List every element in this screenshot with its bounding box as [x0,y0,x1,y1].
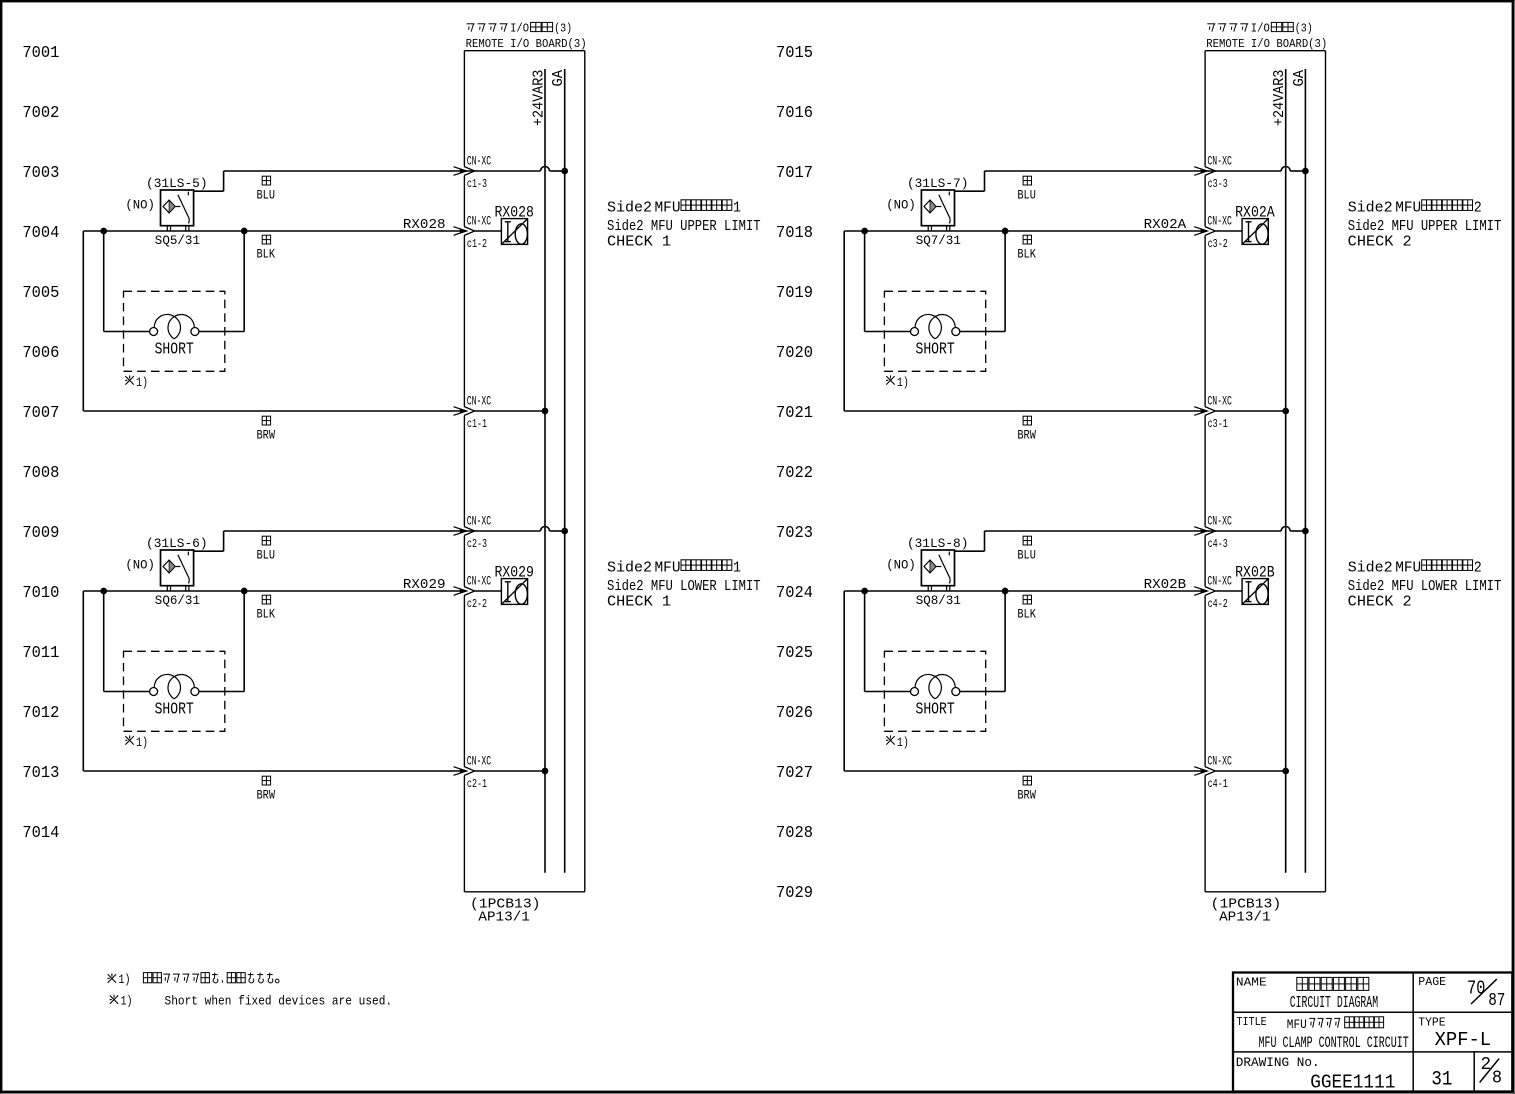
svg-text:CHECK 2: CHECK 2 [1348,233,1412,251]
SHORT jumper plug symbol (SQ6/31) [150,674,199,698]
wire from junction dots down to SHORT jumper (SQ7/31) [865,231,1006,332]
svg-text:7004: 7004 [22,223,59,242]
switch contact blade in SQ8/31 [937,552,951,584]
junction dot c3-3 on GA bus [1303,168,1309,174]
svg-text:MFU: MFU [655,558,681,576]
connector label CN-XC c3-2 [1207,215,1232,251]
svg-text:RX029: RX029 [494,564,534,582]
svg-text:GGEE1111: GGEE1111 [1310,1071,1395,1093]
svg-text:c2-3: c2-3 [467,537,487,551]
I/O module label RX029 [494,564,534,582]
svg-text:1): 1) [136,736,148,750]
board designation (1PCB13) right [1211,897,1282,926]
connector label CN-XC c4-2 [1207,575,1232,611]
note mark *1) below dashed box [886,375,909,390]
SHORT dashed enclosure (SQ8/31) [884,651,985,731]
svg-text:SHORT: SHORT [916,340,955,358]
note mark *1) below dashed box [125,375,148,390]
svg-text:7009: 7009 [22,523,59,542]
switch name label (31LS-8) [907,536,969,551]
svg-text:BRW: BRW [257,429,276,443]
row number labels 7001-7014 [22,43,59,842]
junction dot left on wire c4-2 [862,588,868,594]
svg-text:CN-XC: CN-XC [1207,215,1232,229]
remote I/O board right outline [1205,51,1325,892]
wire c4-1 BRW return to +24VAR3 [844,591,1285,776]
svg-text:AP13/1: AP13/1 [1219,910,1271,926]
connector entry arrow at y=231 [1194,227,1215,236]
svg-text:RX029: RX029 [403,578,446,593]
svg-text:BRW: BRW [257,789,276,803]
limit switch SQ8/31 (31LS-8) box [921,550,954,591]
svg-text:7007: 7007 [22,403,59,422]
svg-text:NAME: NAME [1236,976,1267,990]
svg-text:2: 2 [1481,1055,1492,1075]
+24VAR3 bus right [1272,69,1288,873]
blue wire colour label [257,176,276,203]
proximity sensor diamond in SQ7/31 [924,200,936,213]
SHORT label [155,700,194,718]
function description Side2 MFU UPPER LIMIT [607,198,761,250]
svg-text:c1-3: c1-3 [467,177,487,191]
svg-text:CN-XC: CN-XC [1207,755,1232,769]
svg-text:(3): (3) [554,22,572,36]
connector label CN-XC c1-1 [467,395,492,431]
blue wire colour label [1017,176,1036,203]
svg-text:DRAWING No.: DRAWING No. [1236,1055,1320,1070]
SHORT dashed enclosure (SQ7/31) [884,291,985,371]
junction dot on +24VAR3 bus y=771 [542,768,548,774]
svg-text:CN-XC: CN-XC [1207,155,1232,169]
svg-text:(NO): (NO) [125,198,154,213]
connector entry arrow at y=411 [454,407,475,416]
title block frame [1233,973,1512,1092]
svg-text:87: 87 [1488,991,1505,1011]
svg-text:7006: 7006 [22,343,59,362]
svg-text:+24VAR3: +24VAR3 [1272,70,1288,126]
title block sheet number 31 [1431,1068,1452,1091]
svg-text:7016: 7016 [776,103,813,122]
svg-text:RX02A: RX02A [1144,218,1187,233]
blue wire colour label [257,536,276,563]
svg-text:1): 1) [136,376,148,390]
svg-text:CN-XC: CN-XC [467,215,492,229]
connector entry arrow at y=771 [454,767,475,776]
connector label CN-XC c2-2 [467,575,492,611]
svg-text:BRW: BRW [1017,789,1036,803]
svg-text:CHECK 2: CHECK 2 [1348,593,1412,611]
svg-text:BLU: BLU [257,549,276,563]
svg-text:7020: 7020 [776,343,813,362]
(NO) label for SQ5/31 [125,198,154,213]
connector entry arrow at y=171 [1194,167,1215,176]
wire c1-1 BRW return to +24VAR3 [83,231,545,416]
svg-text:7024: 7024 [776,583,813,602]
svg-text:SHORT: SHORT [916,700,955,718]
title block sheet fraction 2/8 [1480,1055,1502,1088]
svg-text:BLK: BLK [257,607,276,621]
svg-text:7011: 7011 [22,643,59,662]
proximity sensor diamond in SQ8/31 [924,560,936,573]
connector label CN-XC c4-1 [1207,755,1232,791]
svg-text:(31LS-6): (31LS-6) [146,536,208,551]
switch designator SQ5/31 [155,234,200,248]
svg-text:CHECK 1: CHECK 1 [607,593,671,611]
svg-text:31: 31 [1431,1068,1452,1091]
connector entry arrow at y=591 [1194,587,1215,596]
svg-text:REMOTE I/O BOARD(3): REMOTE I/O BOARD(3) [1206,37,1327,51]
I/O module label RX02B [1235,564,1275,582]
svg-text:7026: 7026 [776,703,813,722]
svg-text:c2-2: c2-2 [467,597,487,611]
svg-text:7022: 7022 [776,463,813,482]
svg-text:SQ6/31: SQ6/31 [155,594,200,608]
(NO) label for SQ6/31 [125,558,154,573]
I/O module RX02B [1242,579,1268,605]
junction dot left on wire c3-2 [862,228,868,234]
board title right [1206,22,1327,51]
svg-text:PAGE: PAGE [1418,975,1446,989]
SHORT jumper plug symbol (SQ7/31) [911,314,960,338]
switch contact blade in SQ7/31 [937,192,951,224]
svg-text:BLK: BLK [1017,247,1036,261]
svg-text:c1-2: c1-2 [467,237,487,251]
brown wire colour label [257,776,276,803]
function description Side2 MFU UPPER LIMIT [1348,198,1502,250]
svg-text:MFU: MFU [1287,1017,1307,1032]
proximity sensor diamond in SQ5/31 [163,200,175,213]
svg-text:7013: 7013 [22,763,59,782]
svg-text:TYPE: TYPE [1418,1016,1445,1030]
junction dot right on wire c3-2 [1002,228,1008,234]
wire c2-2 BLK from SQ6/31 to I/O input RX029 [83,587,501,596]
title block TITLE cell [1237,1015,1409,1052]
svg-text:7014: 7014 [22,823,59,842]
switch designator SQ7/31 [916,234,961,248]
switch contact blade in SQ6/31 [176,552,190,584]
note mark *1) below dashed box [886,735,909,750]
board designation (1PCB13) left [470,897,541,926]
svg-text:1): 1) [119,973,131,987]
svg-text:7002: 7002 [22,103,59,122]
SHORT label [916,700,955,718]
switch designator SQ8/31 [916,594,961,608]
connector label CN-XC c1-2 [467,215,492,251]
svg-text:7010: 7010 [22,583,59,602]
note mark *1) below dashed box [125,735,148,750]
svg-text:CN-XC: CN-XC [467,395,492,409]
switch name label (31LS-5) [146,176,208,191]
connector entry arrow at y=531 [454,527,475,536]
svg-text:CN-XC: CN-XC [1207,575,1232,589]
connector entry arrow at y=771 [1194,767,1215,776]
svg-text:7008: 7008 [22,463,59,482]
footnote line 2 (English): *1) Short when fixed devices are used. [110,994,393,1009]
wire from junction dots down to SHORT jumper (SQ8/31) [865,591,1006,692]
svg-text:SHORT: SHORT [155,700,194,718]
svg-text:(31LS-8): (31LS-8) [907,536,969,551]
limit switch SQ7/31 (31LS-7) box [921,190,954,231]
svg-text:Side2: Side2 [607,198,652,216]
I/O module label RX02A [1235,204,1275,222]
svg-text:RX02B: RX02B [1235,564,1275,582]
wire c1-3 BLU from SQ5/31 to board [194,167,565,192]
svg-text:MFU: MFU [1395,558,1421,576]
svg-text:7015: 7015 [776,43,813,62]
svg-text:7028: 7028 [776,823,813,842]
svg-text:BLU: BLU [1017,549,1036,563]
board title left [466,22,587,51]
black wire colour label [1017,235,1036,261]
svg-text:BLU: BLU [1017,189,1036,203]
SHORT jumper plug symbol (SQ5/31) [150,314,199,338]
connector label CN-XC c3-3 [1207,155,1232,191]
svg-text:c3-3: c3-3 [1208,177,1228,191]
svg-text:7019: 7019 [776,283,813,302]
svg-text:MFU CLAMP CONTROL CIRCUIT: MFU CLAMP CONTROL CIRCUIT [1259,1034,1409,1052]
SHORT label [155,340,194,358]
junction dot left on wire c1-2 [101,228,107,234]
svg-text:SQ5/31: SQ5/31 [155,234,200,248]
junction dot right on wire c1-2 [241,228,247,234]
brown wire colour label [257,416,276,443]
GA bus right [1292,69,1308,873]
I/O module RX02A [1242,219,1268,245]
SHORT dashed enclosure (SQ6/31) [124,651,225,731]
function description Side2 MFU LOWER LIMIT [1348,558,1502,610]
svg-text:RX028: RX028 [494,204,534,222]
svg-text:I/O: I/O [1251,22,1270,36]
connector label CN-XC c4-3 [1207,515,1232,551]
svg-text:8: 8 [1492,1069,1502,1089]
SHORT label [916,340,955,358]
svg-text:CIRCUIT DIAGRAM: CIRCUIT DIAGRAM [1290,993,1378,1012]
svg-text:7012: 7012 [22,703,59,722]
svg-text:2: 2 [1474,558,1482,576]
svg-text:1: 1 [733,558,741,576]
svg-text:REMOTE I/O BOARD(3): REMOTE I/O BOARD(3) [466,37,587,51]
svg-text:7021: 7021 [776,403,813,422]
row number labels 7015-7029 [776,43,813,902]
svg-text:(31LS-5): (31LS-5) [146,176,208,191]
brown wire colour label [1017,416,1036,443]
svg-text:c3-2: c3-2 [1208,237,1228,251]
svg-text:7003: 7003 [22,163,59,182]
svg-text:1: 1 [733,198,741,216]
svg-text:(31LS-7): (31LS-7) [907,176,969,191]
svg-text:SHORT: SHORT [155,340,194,358]
connector label CN-XC c2-1 [467,755,492,791]
connector label CN-XC c1-3 [467,155,492,191]
I/O module RX028 [501,219,527,245]
svg-text:7001: 7001 [22,43,59,62]
limit switch SQ6/31 (31LS-6) box [161,550,194,591]
svg-text:CN-XC: CN-XC [467,755,492,769]
wire signal label RX029 [403,578,446,593]
junction dot c2-3 on GA bus [562,528,568,534]
junction dot c1-3 on GA bus [562,168,568,174]
wire c1-2 BLK from SQ5/31 to I/O input RX028 [83,227,501,236]
svg-text:c3-1: c3-1 [1208,417,1228,431]
limit switch SQ5/31 (31LS-5) box [161,190,194,231]
title block NAME cell [1236,976,1378,1012]
function description Side2 MFU LOWER LIMIT [607,558,761,610]
svg-text:c4-2: c4-2 [1208,597,1228,611]
GA bus left [551,69,567,873]
junction dot on +24VAR3 bus y=411 [542,408,548,414]
SHORT jumper plug symbol (SQ8/31) [911,674,960,698]
wire c3-3 BLU from SQ7/31 to board [955,167,1306,192]
svg-text:(3): (3) [1295,22,1313,36]
junction dot right on wire c2-2 [241,588,247,594]
wire from junction dots down to SHORT jumper (SQ6/31) [104,591,245,692]
switch name label (31LS-6) [146,536,208,551]
svg-text:XPF-L: XPF-L [1435,1029,1492,1051]
wire c2-1 BRW return to +24VAR3 [83,591,545,776]
switch designator SQ6/31 [155,594,200,608]
(NO) label for SQ8/31 [886,558,916,573]
svg-text:7027: 7027 [776,763,813,782]
SHORT dashed enclosure (SQ5/31) [124,291,225,371]
svg-text:GA: GA [1292,70,1308,87]
connector entry arrow at y=171 [454,167,475,176]
svg-text:c4-1: c4-1 [1208,777,1228,791]
svg-text:CN-XC: CN-XC [1207,395,1232,409]
svg-text:GA: GA [551,70,567,87]
connector entry arrow at y=531 [1194,527,1215,536]
+24VAR3 bus left [532,69,548,873]
svg-text:1): 1) [121,994,133,1008]
junction dot right on wire c4-2 [1002,588,1008,594]
junction dot c4-3 on GA bus [1303,528,1309,534]
connector label CN-XC c2-3 [467,515,492,551]
junction dot on +24VAR3 bus y=771 [1283,768,1289,774]
svg-text:7023: 7023 [776,523,813,542]
svg-text:CN-XC: CN-XC [467,575,492,589]
wire signal label RX02B [1144,578,1187,593]
junction dot on +24VAR3 bus y=411 [1283,408,1289,414]
svg-text:CN-XC: CN-XC [467,515,492,529]
svg-text:TITLE: TITLE [1237,1015,1267,1029]
svg-text:AP13/1: AP13/1 [478,910,530,926]
wire from junction dots down to SHORT jumper (SQ5/31) [104,231,245,332]
black wire colour label [1017,595,1036,621]
svg-text:MFU: MFU [655,198,681,216]
svg-text:+24VAR3: +24VAR3 [532,70,548,126]
svg-text:1): 1) [897,376,909,390]
svg-text:2: 2 [1474,198,1482,216]
blue wire colour label [1017,536,1036,563]
black wire colour label [257,595,276,621]
connector entry arrow at y=231 [454,227,475,236]
I/O module RX029 [501,579,527,605]
svg-text:c1-1: c1-1 [467,417,487,431]
svg-text:BLK: BLK [257,247,276,261]
svg-text:(NO): (NO) [125,558,154,573]
proximity sensor diamond in SQ6/31 [163,560,175,573]
svg-text:Side2: Side2 [1348,558,1393,576]
svg-text:CN-XC: CN-XC [1207,515,1232,529]
svg-text:c4-3: c4-3 [1208,537,1228,551]
svg-text:7025: 7025 [776,643,813,662]
wire signal label RX028 [403,218,446,233]
wire c4-2 BLK from SQ8/31 to I/O input RX02B [844,587,1242,596]
wire c3-1 BRW return to +24VAR3 [844,231,1285,416]
svg-text:7017: 7017 [776,163,813,182]
black wire colour label [257,235,276,261]
svg-text:CN-XC: CN-XC [467,155,492,169]
svg-text:MFU: MFU [1395,198,1421,216]
brown wire colour label [1017,776,1036,803]
wire c2-3 BLU from SQ6/31 to board [194,527,565,552]
connector entry arrow at y=411 [1194,407,1215,416]
title block PAGE cell 70/87 [1418,975,1505,1011]
svg-text:7018: 7018 [776,223,813,242]
junction dot left on wire c2-2 [101,588,107,594]
remote I/O board left outline [464,51,584,892]
svg-text:BRW: BRW [1017,429,1036,443]
svg-text:Side2: Side2 [1348,198,1393,216]
(NO) label for SQ7/31 [886,198,916,213]
svg-text:c2-1: c2-1 [467,777,487,791]
svg-text:70: 70 [1467,978,1485,1000]
svg-text:RX02B: RX02B [1144,578,1187,593]
switch contact blade in SQ5/31 [176,192,190,224]
wire c3-2 BLK from SQ7/31 to I/O input RX02A [844,227,1242,236]
switch name label (31LS-7) [907,176,969,191]
svg-text:(NO): (NO) [886,558,916,573]
connector label CN-XC c3-1 [1207,395,1232,431]
svg-text:RX028: RX028 [403,218,446,233]
svg-text:Short when fixed devices are u: Short when fixed devices are used. [165,994,393,1009]
svg-text:SQ8/31: SQ8/31 [916,594,961,608]
svg-text:I/O: I/O [510,22,529,36]
svg-text:BLK: BLK [1017,607,1036,621]
footnote line 1 (Japanese): *1) short when fixed devices [108,973,280,987]
svg-text:1): 1) [897,736,909,750]
svg-text:CHECK 1: CHECK 1 [607,233,671,251]
title block TYPE cell XPF-L [1418,1016,1491,1052]
svg-text:7029: 7029 [776,883,813,902]
wire signal label RX02A [1144,218,1187,233]
title block DRAWING No. cell [1236,1055,1396,1093]
wire c4-3 BLU from SQ8/31 to board [955,527,1306,552]
svg-text:7005: 7005 [22,283,59,302]
svg-text:SQ7/31: SQ7/31 [916,234,961,248]
svg-text:BLU: BLU [257,189,276,203]
svg-text:RX02A: RX02A [1235,204,1275,222]
svg-text:Side2: Side2 [607,558,652,576]
connector entry arrow at y=591 [454,587,475,596]
svg-text:(NO): (NO) [886,198,916,213]
I/O module label RX028 [494,204,534,222]
